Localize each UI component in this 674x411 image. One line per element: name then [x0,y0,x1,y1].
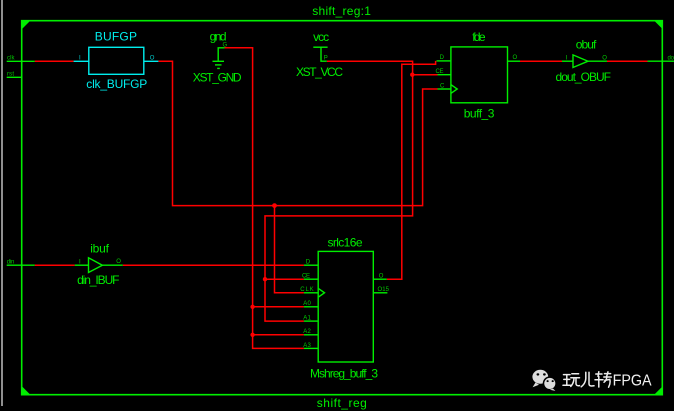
svg-text:din_IBUF: din_IBUF [77,273,119,287]
svg-text:fde: fde [472,30,486,44]
svg-text:O: O [379,273,384,279]
svg-text:D: D [440,55,445,61]
svg-text:srlc16e: srlc16e [328,235,363,249]
svg-text:CE: CE [302,273,310,279]
svg-text:shift_reg:1: shift_reg:1 [312,4,371,18]
svg-text:clk_BUFGP: clk_BUFGP [86,77,147,91]
svg-text:O: O [116,259,121,265]
svg-text:dout_OBUF: dout_OBUF [556,70,612,84]
svg-text:dout: dout [668,55,674,61]
svg-text:G: G [223,43,228,49]
svg-text:O: O [513,55,518,61]
svg-text:P: P [324,55,328,61]
svg-text:ibuf: ibuf [90,242,109,256]
svg-text:buff_3: buff_3 [464,107,495,121]
svg-text:A1: A1 [303,315,311,321]
svg-text:FPGA: FPGA [613,372,652,389]
svg-text:BUFGP: BUFGP [95,29,137,43]
svg-text:O15: O15 [378,287,390,293]
svg-text:gnd: gnd [210,30,227,44]
svg-text:din: din [7,260,15,266]
svg-text:shift_reg: shift_reg [317,396,367,410]
svg-text:CLK: CLK [300,287,314,293]
svg-text:O: O [602,56,607,62]
svg-text:D: D [306,259,311,265]
svg-text:clk: clk [7,56,16,62]
svg-text:Mshreg_buff_3: Mshreg_buff_3 [310,367,378,381]
svg-text:A2: A2 [303,329,311,335]
svg-text:obuf: obuf [576,38,597,52]
svg-text:XST_VCC: XST_VCC [296,65,343,79]
svg-text:CE: CE [436,69,444,75]
svg-text:A0: A0 [303,301,311,307]
svg-text:A3: A3 [303,343,311,349]
svg-text:rst: rst [7,72,14,78]
svg-text:C: C [440,83,445,89]
svg-text:vcc: vcc [313,30,329,44]
svg-text:XST_GND: XST_GND [193,71,242,85]
svg-text:O: O [150,56,155,62]
